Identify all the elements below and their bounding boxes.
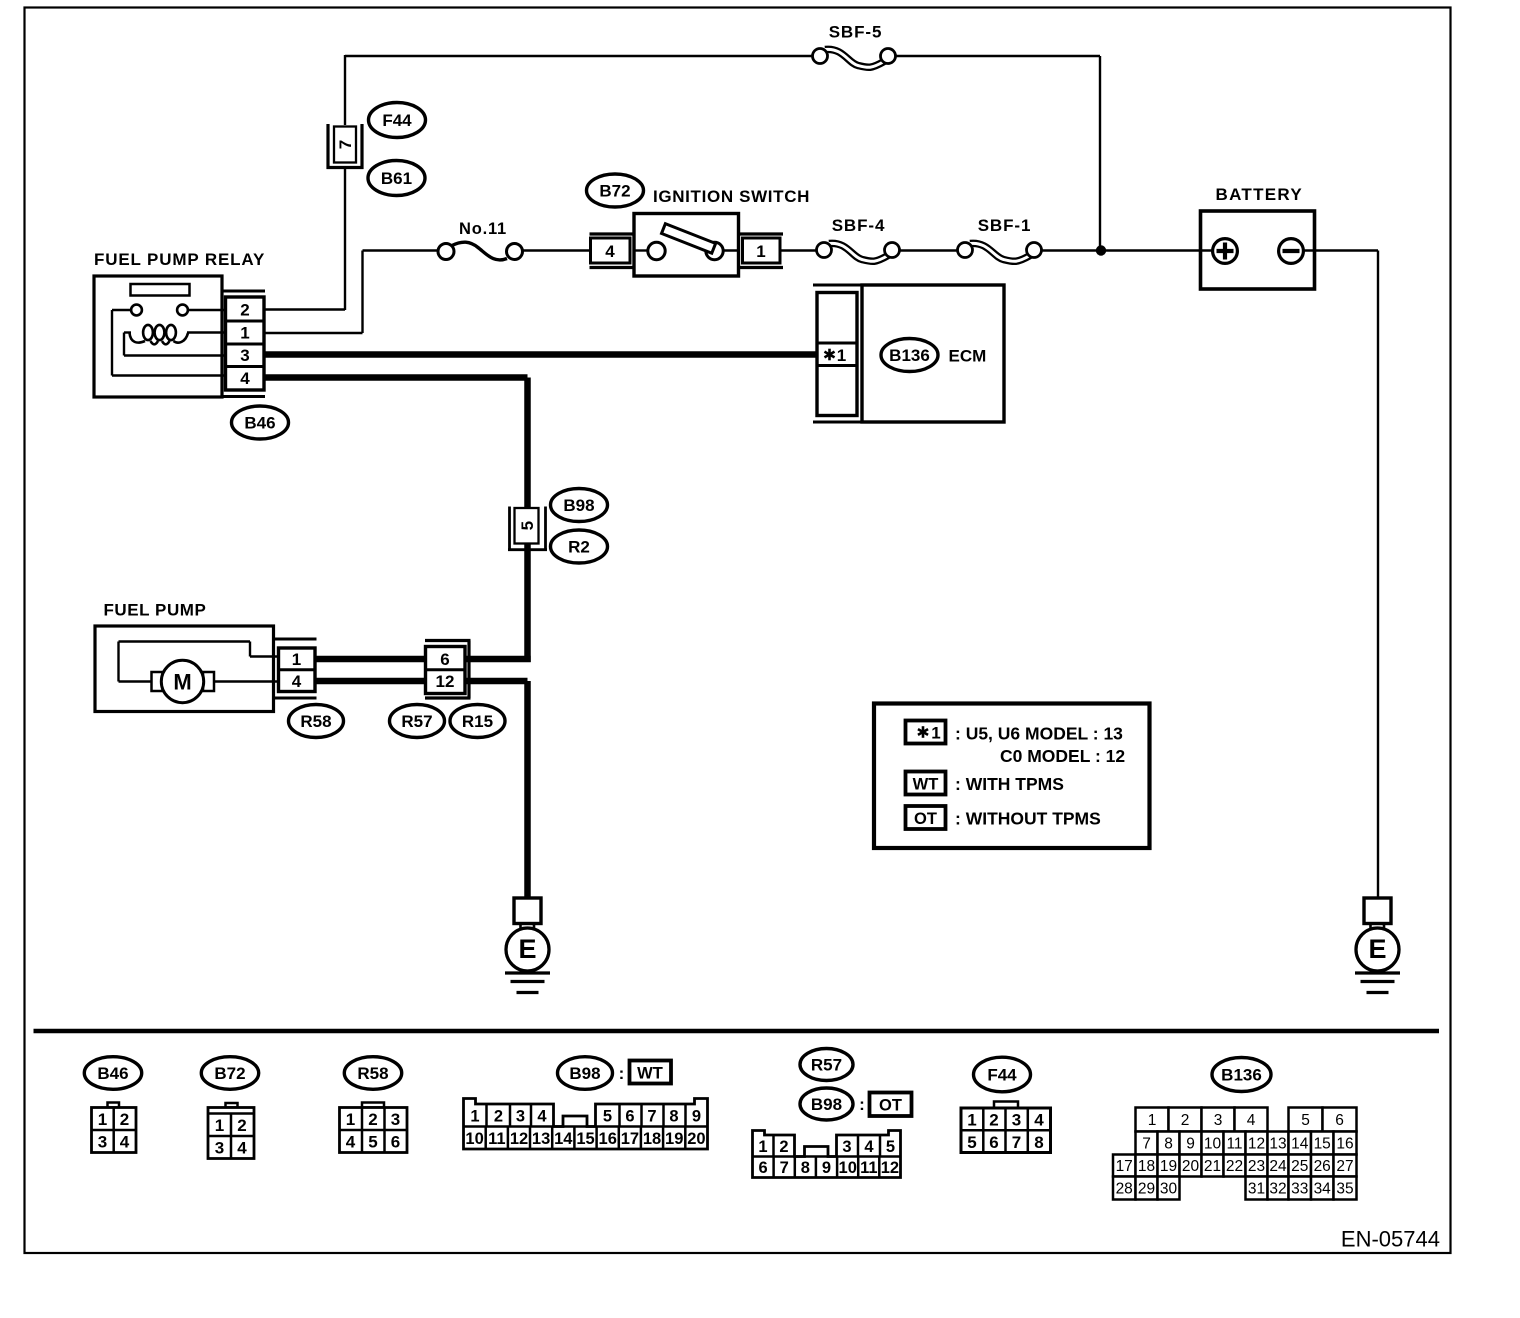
pinout R58 <box>344 1057 401 1090</box>
svg-text:B61: B61 <box>381 169 412 188</box>
svg-text:29: 29 <box>1138 1181 1155 1198</box>
svg-text:EN-05744: EN-05744 <box>1341 1227 1440 1252</box>
svg-text:12: 12 <box>881 1159 899 1177</box>
svg-text:15: 15 <box>1314 1136 1331 1153</box>
wire: relay pin3 to ECM (thick) <box>263 351 817 358</box>
connector label B98 <box>551 489 608 522</box>
svg-text:2: 2 <box>240 301 249 320</box>
svg-text:4: 4 <box>864 1138 874 1156</box>
svg-text:1: 1 <box>758 1138 767 1156</box>
svg-text:5: 5 <box>518 521 537 530</box>
svg-text:B98: B98 <box>569 1064 600 1083</box>
svg-text:4: 4 <box>240 369 250 388</box>
svg-text:1: 1 <box>931 724 940 743</box>
svg-text:33: 33 <box>1291 1181 1308 1198</box>
svg-text:3: 3 <box>391 1110 400 1129</box>
svg-text:5: 5 <box>368 1133 377 1152</box>
svg-text:4: 4 <box>537 1107 547 1125</box>
pinout R57/B98-OT 12pin shell <box>753 1131 901 1178</box>
pinout B72 <box>201 1057 258 1090</box>
svg-text:6: 6 <box>440 650 449 669</box>
svg-text:30: 30 <box>1160 1181 1178 1198</box>
svg-text:2: 2 <box>989 1111 998 1130</box>
svg-text:4: 4 <box>1247 1112 1256 1129</box>
connector 5 (B98/R2 pass-through) <box>508 507 547 552</box>
svg-text:IGNITION SWITCH: IGNITION SWITCH <box>653 187 810 206</box>
svg-text:7: 7 <box>647 1107 656 1125</box>
svg-text:R57: R57 <box>811 1056 842 1075</box>
svg-text:B98: B98 <box>811 1095 842 1114</box>
svg-text:1: 1 <box>346 1110 355 1129</box>
pinout F44 <box>974 1057 1031 1092</box>
svg-text:FUEL PUMP RELAY: FUEL PUMP RELAY <box>94 250 265 269</box>
svg-text:6: 6 <box>1335 1112 1344 1129</box>
svg-text:R2: R2 <box>568 538 590 557</box>
ignition switch pin 4 <box>590 234 635 268</box>
svg-text:1: 1 <box>756 242 765 261</box>
wire: battery minus to right ground <box>1303 249 1378 251</box>
svg-text:SBF-5: SBF-5 <box>829 23 883 42</box>
svg-text:12: 12 <box>436 672 455 691</box>
svg-text:No.11: No.11 <box>459 220 507 238</box>
svg-text:13: 13 <box>532 1130 550 1148</box>
svg-text:4: 4 <box>605 242 615 261</box>
svg-text:28: 28 <box>1116 1181 1133 1198</box>
svg-text:31: 31 <box>1248 1181 1265 1198</box>
svg-text:1: 1 <box>98 1110 107 1129</box>
svg-text:4: 4 <box>120 1133 130 1152</box>
svg-text:10: 10 <box>1204 1136 1222 1153</box>
ECM pin *1 <box>824 346 846 365</box>
svg-text:14: 14 <box>1291 1136 1309 1153</box>
ignition switch pin 1 <box>739 234 784 268</box>
svg-text:6: 6 <box>625 1107 634 1125</box>
svg-text:1: 1 <box>240 324 249 343</box>
wire: relay pin2 riser through connector 7 <box>344 55 346 125</box>
svg-text:F44: F44 <box>382 111 412 130</box>
svg-text:13: 13 <box>1269 1136 1286 1153</box>
svg-text:22: 22 <box>1226 1158 1243 1175</box>
svg-text:18: 18 <box>1138 1158 1155 1175</box>
connector label B61 <box>368 161 425 196</box>
svg-text:17: 17 <box>1116 1158 1133 1175</box>
svg-text:25: 25 <box>1291 1158 1308 1175</box>
svg-text:E: E <box>518 934 536 964</box>
svg-text:6: 6 <box>759 1159 768 1177</box>
relay contact terminals <box>131 305 142 316</box>
svg-text:11: 11 <box>1226 1136 1242 1153</box>
svg-text:3: 3 <box>842 1138 851 1156</box>
battery minus terminal <box>1279 239 1304 264</box>
svg-text:35: 35 <box>1336 1181 1353 1198</box>
svg-text:WT: WT <box>637 1065 663 1083</box>
svg-text:E: E <box>1368 934 1386 964</box>
svg-text:1: 1 <box>215 1116 224 1135</box>
junction node battery feed <box>1096 245 1106 255</box>
svg-text:3: 3 <box>240 346 249 365</box>
svg-text:B72: B72 <box>214 1064 245 1083</box>
svg-text:R58: R58 <box>300 712 331 731</box>
ECM B136 <box>813 285 862 422</box>
svg-text:12: 12 <box>1248 1136 1265 1153</box>
connector label R57 <box>390 705 445 738</box>
ignition switch contacts <box>634 249 648 251</box>
svg-text:20: 20 <box>687 1130 705 1148</box>
svg-text:12: 12 <box>510 1130 528 1148</box>
svg-text:1: 1 <box>470 1107 479 1125</box>
wire: relay pin1 riser to ignition feed <box>264 332 363 334</box>
svg-text:OT: OT <box>914 810 937 828</box>
svg-text:4: 4 <box>1034 1111 1044 1130</box>
relay coil <box>130 325 189 344</box>
svg-text:18: 18 <box>643 1130 661 1148</box>
svg-text:4: 4 <box>346 1133 356 1152</box>
relay internal wiring <box>112 309 131 311</box>
svg-text:7: 7 <box>1012 1133 1021 1152</box>
connector label B136 (ECM) <box>881 339 938 372</box>
connector label R15 <box>450 705 505 738</box>
svg-text:8: 8 <box>669 1107 678 1125</box>
svg-text:9: 9 <box>822 1159 831 1177</box>
svg-text:34: 34 <box>1314 1181 1332 1198</box>
svg-text:27: 27 <box>1336 1158 1353 1175</box>
svg-text:15: 15 <box>576 1130 594 1148</box>
pinout R57 / B98 : OT <box>800 1049 853 1081</box>
wire: main ignition row <box>363 249 441 251</box>
connector 7 (F44/B61 pass-through) <box>327 124 364 169</box>
ignition switch lever <box>662 224 716 254</box>
ground E (fuel pump) <box>505 898 550 993</box>
svg-text:8: 8 <box>1164 1136 1173 1153</box>
svg-text:14: 14 <box>554 1130 573 1148</box>
svg-text:2: 2 <box>368 1110 377 1129</box>
pinout B46 <box>84 1057 141 1090</box>
svg-text:2: 2 <box>237 1116 246 1135</box>
legend *1 <box>906 721 946 744</box>
svg-text:2: 2 <box>494 1107 503 1125</box>
svg-text:C0 MODEL : 12: C0 MODEL : 12 <box>1000 746 1125 766</box>
svg-text:3: 3 <box>215 1138 224 1157</box>
svg-text:2: 2 <box>120 1110 129 1129</box>
wire: SBF-5 feed from connector 7 riser to battery junction <box>345 55 814 57</box>
svg-text:11: 11 <box>860 1159 877 1177</box>
svg-text:23: 23 <box>1248 1158 1265 1175</box>
svg-text:10: 10 <box>839 1159 857 1177</box>
svg-text:B136: B136 <box>1221 1066 1262 1085</box>
fuel pump motor M <box>152 660 215 702</box>
legend OT <box>906 806 946 829</box>
fuel pump internal wiring <box>119 640 251 642</box>
connector label B46 <box>232 406 289 439</box>
connector label F44 <box>369 103 426 138</box>
svg-text:FUEL PUMP: FUEL PUMP <box>104 601 207 620</box>
svg-text:WT: WT <box>913 776 939 794</box>
relay armature bar <box>131 284 190 296</box>
svg-text:8: 8 <box>1034 1133 1043 1152</box>
svg-text:SBF-4: SBF-4 <box>832 216 886 235</box>
svg-text:24: 24 <box>1269 1158 1287 1175</box>
fuel pump connector pins 1/4 <box>274 639 317 698</box>
ground E (battery) <box>1355 898 1400 993</box>
svg-text:16: 16 <box>1336 1136 1353 1153</box>
svg-text:B46: B46 <box>97 1064 128 1083</box>
svg-text:32: 32 <box>1269 1181 1286 1198</box>
svg-text:R58: R58 <box>357 1064 388 1083</box>
svg-text:4: 4 <box>292 672 302 691</box>
svg-text:ECM: ECM <box>949 346 987 365</box>
svg-text:5: 5 <box>1301 1112 1310 1129</box>
svg-text:: WITHOUT TPMS: : WITHOUT TPMS <box>955 809 1101 829</box>
svg-text:21: 21 <box>1204 1158 1221 1175</box>
svg-text:7: 7 <box>336 140 355 149</box>
svg-text:17: 17 <box>621 1130 639 1148</box>
pinout B98 : WT <box>558 1057 613 1090</box>
svg-text:SBF-1: SBF-1 <box>978 216 1032 235</box>
svg-text:R57: R57 <box>401 712 432 731</box>
svg-text:: U5, U6 MODEL : 13: : U5, U6 MODEL : 13 <box>955 724 1123 744</box>
connector label R2 <box>551 530 608 563</box>
svg-text:M: M <box>173 670 191 695</box>
svg-text:9: 9 <box>692 1107 701 1125</box>
battery plus terminal <box>1213 239 1238 264</box>
svg-text:B72: B72 <box>599 182 630 201</box>
ignition switch box <box>634 214 739 277</box>
relay connector B46 pins 2/1/3/4 <box>222 291 265 397</box>
svg-text:5: 5 <box>886 1138 895 1156</box>
svg-text:10: 10 <box>465 1130 483 1148</box>
svg-text:R15: R15 <box>462 712 493 731</box>
pinout B136 <box>1212 1058 1271 1092</box>
wire: fuel pump pin4 to R57 pin12 to left ground (thick) <box>315 678 426 685</box>
svg-text:: WITH TPMS: : WITH TPMS <box>955 774 1064 794</box>
svg-text:1: 1 <box>1148 1112 1157 1129</box>
svg-text:5: 5 <box>967 1133 976 1152</box>
svg-text::: : <box>859 1095 865 1114</box>
legend WT <box>906 772 946 795</box>
svg-text:19: 19 <box>1160 1158 1177 1175</box>
svg-text:1: 1 <box>292 650 301 669</box>
wire: fuel pump pin1 to R57 pin6 (thick) <box>315 656 426 663</box>
svg-text:3: 3 <box>1214 1112 1223 1129</box>
pinout B98-WT 20pin shell <box>464 1099 708 1150</box>
svg-text:6: 6 <box>391 1133 400 1152</box>
svg-text:7: 7 <box>1142 1136 1151 1153</box>
svg-text:F44: F44 <box>987 1066 1017 1085</box>
svg-text:9: 9 <box>1186 1136 1195 1153</box>
svg-text::: : <box>619 1064 625 1083</box>
ECM box <box>862 285 1004 422</box>
connector label R58 <box>289 705 344 738</box>
svg-text:3: 3 <box>98 1133 107 1152</box>
connector R57 pins 6/12 <box>425 641 471 699</box>
svg-text:7: 7 <box>780 1159 789 1177</box>
svg-text:19: 19 <box>665 1130 683 1148</box>
legend box <box>874 704 1150 849</box>
svg-text:2: 2 <box>1181 1112 1190 1129</box>
svg-text:5: 5 <box>603 1107 612 1125</box>
separator line <box>34 1029 1440 1034</box>
wire: relay pin4 down to R57 pin6 (thick) <box>263 374 528 381</box>
svg-text:3: 3 <box>1012 1111 1021 1130</box>
svg-text:26: 26 <box>1314 1158 1331 1175</box>
svg-text:4: 4 <box>237 1138 247 1157</box>
svg-text:6: 6 <box>989 1133 998 1152</box>
svg-text:1: 1 <box>837 346 846 365</box>
connector label B72 <box>587 174 644 207</box>
svg-text:16: 16 <box>599 1130 617 1148</box>
svg-text:BATTERY: BATTERY <box>1216 185 1303 204</box>
svg-text:B98: B98 <box>563 496 594 515</box>
svg-text:B136: B136 <box>889 346 930 365</box>
svg-text:3: 3 <box>516 1107 525 1125</box>
svg-text:11: 11 <box>488 1130 505 1148</box>
svg-text:1: 1 <box>967 1111 976 1130</box>
svg-text:8: 8 <box>801 1159 810 1177</box>
svg-text:20: 20 <box>1182 1158 1200 1175</box>
svg-text:OT: OT <box>879 1097 902 1115</box>
svg-text:2: 2 <box>779 1138 788 1156</box>
svg-text:B46: B46 <box>244 414 275 433</box>
